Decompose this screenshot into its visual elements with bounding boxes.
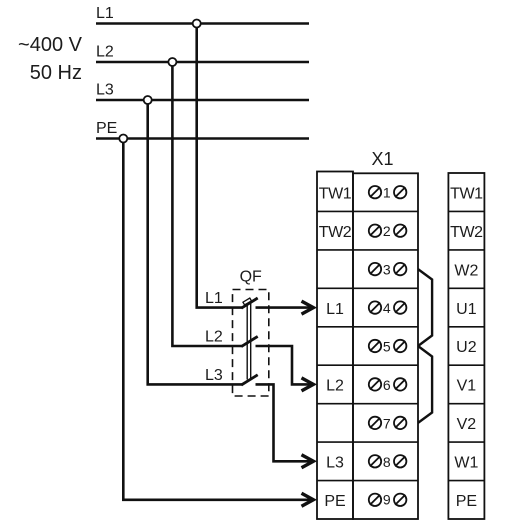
supply voltage label ~400 V 50 Hz [18, 34, 83, 84]
svg-text:QF: QF [240, 269, 262, 286]
bus PE wire [96, 137, 309, 140]
terminal 6 [369, 377, 407, 393]
svg-text:L3: L3 [326, 455, 344, 472]
svg-text:X1: X1 [371, 149, 393, 169]
terminal 3 [369, 262, 407, 278]
terminal 2 [369, 223, 407, 239]
svg-text:2: 2 [383, 223, 391, 239]
svg-text:50 Hz: 50 Hz [30, 62, 82, 84]
breaker QF mechanical linkage [247, 302, 251, 380]
svg-text:PE: PE [456, 493, 477, 510]
jumper terminal 5 to terminal 7 [418, 346, 432, 423]
svg-text:4: 4 [383, 300, 391, 316]
left column row lines [317, 211, 353, 480]
jumper terminal 3 to terminal 5 [418, 269, 432, 346]
terminal 5 [369, 339, 407, 355]
terminal 4 [369, 300, 407, 316]
terminal strip middle column box [353, 173, 418, 519]
wire pole3 output to terminal L3 [256, 384, 311, 461]
svg-text:6: 6 [383, 377, 391, 393]
svg-text:L2: L2 [205, 329, 223, 346]
middle column row lines [353, 211, 418, 480]
svg-text:V1: V1 [457, 378, 477, 395]
svg-text:V2: V2 [457, 416, 477, 433]
terminal 9 [369, 491, 407, 507]
svg-text:3: 3 [383, 262, 391, 278]
svg-text:U2: U2 [456, 339, 477, 356]
svg-text:U1: U1 [456, 301, 477, 318]
terminal 7 [369, 415, 407, 431]
svg-text:1: 1 [383, 185, 391, 201]
svg-text:L2: L2 [326, 378, 344, 395]
wire L1 drop to breaker [197, 24, 243, 308]
terminal 8 [369, 454, 407, 470]
svg-text:L3: L3 [205, 367, 223, 384]
svg-text:PE: PE [96, 120, 117, 137]
motor terminal column row lines [448, 211, 484, 480]
arrow into terminal PE [302, 493, 314, 506]
svg-text:PE: PE [324, 493, 345, 510]
breaker QF dashed enclosure [233, 290, 269, 397]
svg-text:9: 9 [383, 491, 391, 507]
svg-text:TW2: TW2 [319, 224, 352, 241]
wire L3 drop to breaker [148, 100, 243, 384]
svg-text:L2: L2 [96, 44, 114, 61]
svg-text:W1: W1 [454, 455, 478, 472]
arrow into terminal L2 [302, 378, 314, 391]
terminal strip left column box [317, 172, 353, 520]
breaker pole 2 blade (L2) [241, 336, 257, 346]
motor terminal column box [448, 173, 484, 519]
node on bus PE [119, 135, 127, 143]
svg-text:5: 5 [383, 339, 391, 355]
bus L2 wire [96, 61, 309, 64]
node on bus L2 [168, 58, 176, 66]
wire L2 drop to breaker [172, 62, 242, 346]
node on bus L3 [144, 96, 152, 104]
svg-text:7: 7 [383, 415, 391, 431]
breaker pole 1 contact mark [243, 298, 252, 305]
wire PE drop to terminal PE [123, 139, 310, 500]
bus L1 wire [96, 22, 309, 25]
svg-text:~400 V: ~400 V [18, 34, 83, 56]
arrow into terminal L3 [302, 455, 314, 468]
breaker pole 1 blade (L1) [241, 298, 257, 308]
terminal 1 [369, 185, 407, 201]
node on bus L1 [193, 20, 201, 28]
wire pole1 output to terminal L1 [256, 306, 311, 309]
breaker pole 3 blade (L3) [241, 375, 257, 385]
svg-text:8: 8 [383, 454, 391, 470]
svg-text:TW1: TW1 [450, 185, 483, 202]
bus L3 wire [96, 99, 309, 102]
arrow into terminal L1 [302, 301, 314, 314]
svg-text:TW1: TW1 [319, 185, 352, 202]
svg-text:L1: L1 [96, 5, 114, 22]
wire pole2 output to terminal L2 [256, 346, 311, 384]
svg-text:L3: L3 [96, 82, 114, 99]
svg-text:L1: L1 [205, 290, 223, 307]
svg-text:TW2: TW2 [450, 224, 483, 241]
svg-text:L1: L1 [326, 301, 344, 318]
svg-text:W2: W2 [454, 262, 478, 279]
